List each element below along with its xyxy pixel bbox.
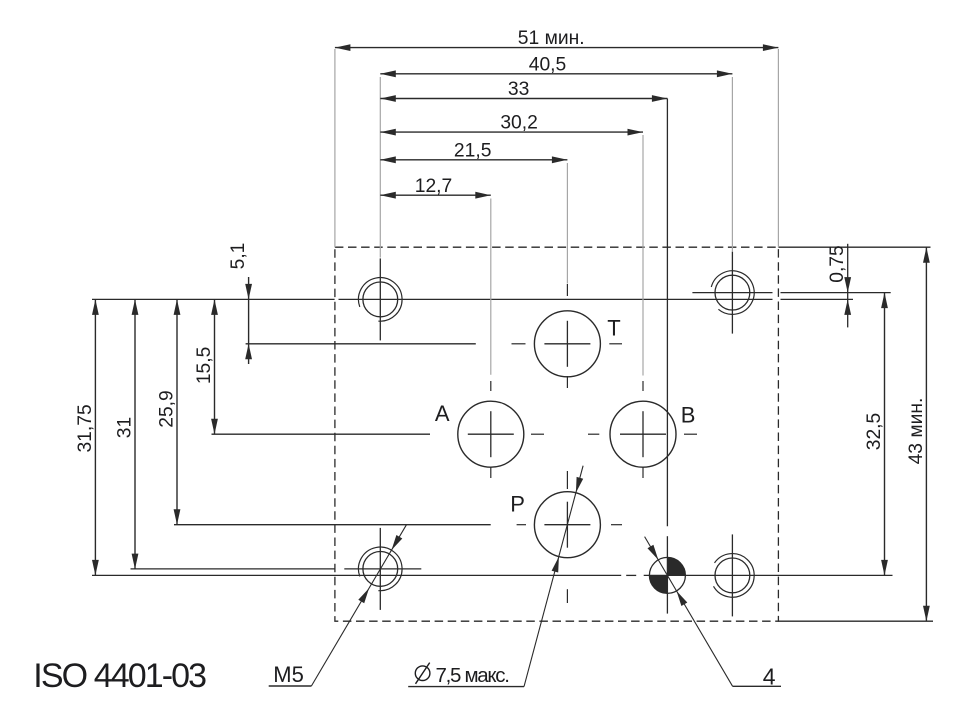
svg-text:ISO 4401-03: ISO 4401-03 — [33, 657, 206, 695]
extension line row P port y=524.7 — [174, 524, 491, 526]
extension line x=567.4 (21,5 to port T) — [566, 163, 568, 284]
extension line x=778.4 (51 min right) — [777, 49, 779, 247]
mounting hole bottom-right (M5) — [714, 534, 755, 616]
port T — [534, 311, 600, 377]
centre-line dashes port T — [512, 284, 623, 388]
port P — [534, 492, 600, 558]
dimension 12,7 — [380, 176, 491, 199]
dimension 0,75 (outside arrows) — [827, 244, 851, 328]
svg-text:32,5: 32,5 — [864, 413, 885, 451]
extension line x=380.3 (common left datum of top dims) — [379, 77, 381, 258]
extension line x=667.4 (33 to datum target) — [666, 99, 668, 614]
leader diameter 7,5 макс. (to port P) — [408, 466, 583, 687]
svg-text:B: B — [681, 403, 696, 428]
centre-line dashes port B — [643, 381, 697, 478]
dimension 31 — [114, 299, 138, 569]
extension line row y=292.6 (top-right hole axis) — [692, 292, 890, 294]
plate outline (dashed mounting surface 51x43) — [335, 247, 779, 621]
extension line x=490.8 (12,7 to port A) — [490, 199, 492, 375]
svg-text:30,2: 30,2 — [500, 113, 538, 134]
dimension 51 мин. — [335, 28, 779, 51]
dimension 5,1 (outside arrows) — [228, 243, 252, 364]
svg-text:21,5: 21,5 — [454, 140, 492, 161]
mounting hole top-left (M5) — [358, 258, 402, 340]
dimension 40,5 — [380, 54, 732, 77]
dimension 31,75 — [75, 299, 99, 575]
label 7,5 макс. with diameter symbol — [415, 663, 508, 687]
extension line row bottom-left hole y=568.9 — [131, 568, 422, 570]
svg-text:15,5: 15,5 — [194, 347, 215, 385]
svg-text:A: A — [435, 401, 450, 426]
centre-line dashes port A — [490, 381, 492, 478]
svg-text:51 мин.: 51 мин. — [518, 28, 585, 49]
dimension 30,2 — [380, 113, 643, 136]
svg-text:31,75: 31,75 — [75, 404, 96, 452]
svg-text:4: 4 — [763, 663, 776, 689]
extension line top-right corner y=247.2 — [778, 246, 930, 248]
dimension 15,5 — [194, 299, 218, 434]
mounting hole top-right (M5) — [711, 252, 754, 334]
dimension 25,9 — [156, 299, 180, 524]
dimension 32,5 — [864, 293, 888, 576]
svg-text:43 мин.: 43 мин. — [906, 398, 927, 465]
svg-text:12,7: 12,7 — [415, 176, 453, 197]
extension line bottom-right corner y=621.2 — [778, 620, 933, 622]
svg-text:31: 31 — [114, 417, 135, 438]
dimension 43 мин. — [906, 247, 930, 621]
dimension 33 — [380, 79, 667, 102]
svg-text:T: T — [607, 316, 620, 341]
extension line row A/B ports y=434.2 — [212, 433, 431, 435]
svg-text:7,5 макс.: 7,5 макс. — [436, 664, 509, 687]
mounting hole bottom-left (M5) — [358, 528, 402, 610]
port B — [610, 401, 676, 467]
dimension 21,5 — [380, 140, 567, 163]
leader M5 (to bottom-left mounting hole) — [269, 524, 407, 686]
svg-text:0,75: 0,75 — [827, 245, 848, 283]
centre-line dashes between ports A and B — [531, 433, 599, 435]
extension line row T port y=343.8 — [246, 343, 476, 345]
svg-text:25,9: 25,9 — [156, 390, 177, 428]
extension line x=643 (30,2 to port B) — [642, 135, 644, 376]
extension line x=732.4 (40,5 to top-right hole) — [731, 77, 733, 251]
datum target symbol (4) — [649, 557, 685, 593]
leader 4 (to datum target) — [645, 537, 781, 687]
extension line row y=299.4 (top-left hole axis) — [92, 298, 853, 300]
svg-text:P: P — [510, 492, 525, 517]
svg-text:M5: M5 — [273, 662, 304, 687]
extension line x=334.9 (51 min left) — [334, 49, 336, 247]
svg-text:40,5: 40,5 — [529, 54, 567, 75]
svg-text:33: 33 — [508, 79, 529, 100]
port A — [458, 401, 524, 467]
svg-text:5,1: 5,1 — [228, 243, 249, 270]
extension line row bottom-right hole y=575.4 — [92, 574, 893, 576]
centre-line dashes port P — [517, 471, 622, 603]
